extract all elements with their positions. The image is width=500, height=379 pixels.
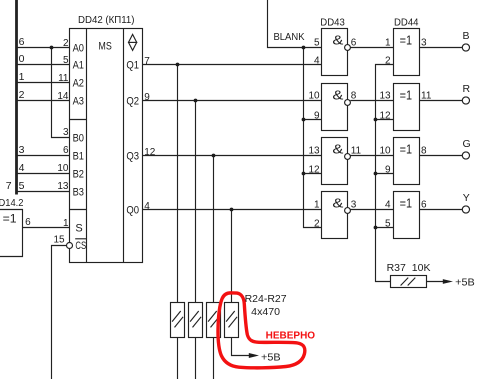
svg-text:B3: B3 <box>73 187 84 199</box>
resistor R25 <box>189 303 203 338</box>
wire DD43.2 out to DD44 pin13 <box>350 100 393 102</box>
wire D14.2 pin6 to S <box>23 227 70 229</box>
svg-text:A2: A2 <box>73 78 84 90</box>
wire DD43.1 out to DD44 pin1 <box>350 47 393 49</box>
junction node Q1 drop <box>176 63 180 67</box>
arrow +5V at R37 <box>443 279 453 284</box>
svg-text:6: 6 <box>63 145 69 156</box>
svg-text:=1: =1 <box>400 142 412 157</box>
terminal R <box>462 97 469 104</box>
junction node Q2 drop <box>194 99 198 103</box>
wire DD43.4 out to DD44 pin4 <box>350 209 393 211</box>
svg-text:4: 4 <box>385 200 391 211</box>
wire below R27 to +5V arrow <box>232 338 250 356</box>
gate DD43.2 (NAND) <box>322 84 348 131</box>
svg-text:9: 9 <box>385 164 391 175</box>
svg-text:7: 7 <box>144 56 150 67</box>
svg-text:Q2: Q2 <box>126 95 139 107</box>
wire below R26 <box>213 338 215 379</box>
output qualifier diamond <box>129 34 137 50</box>
wire DD44.2 out to terminal R <box>420 100 463 102</box>
svg-text:S: S <box>75 223 82 235</box>
svg-text:B0: B0 <box>73 133 84 145</box>
svg-text:3: 3 <box>63 127 69 138</box>
red annotation text НЕВЕРНО <box>266 331 316 342</box>
wire BLANK from top <box>268 0 322 48</box>
svg-text:5: 5 <box>385 218 391 229</box>
svg-text:A3: A3 <box>73 96 84 108</box>
svg-text:=1: =1 <box>3 212 17 226</box>
svg-text:11: 11 <box>351 145 362 156</box>
junction node BLANK pin12 <box>302 172 306 176</box>
svg-text:B1: B1 <box>73 151 84 163</box>
wire R37 to +5V <box>427 281 444 283</box>
svg-text:5: 5 <box>314 38 320 49</box>
wire BLANK to DD43 pin12 <box>304 173 322 175</box>
svg-text:&: & <box>332 89 344 103</box>
wire below R25 <box>195 338 197 379</box>
wire resistor drop 4 <box>231 210 233 303</box>
svg-text:13: 13 <box>57 181 69 192</box>
wire B3 <box>17 191 70 193</box>
svg-text:DD42 (КП11): DD42 (КП11) <box>78 14 135 26</box>
svg-text:10: 10 <box>57 163 69 174</box>
svg-text:2: 2 <box>314 218 320 229</box>
svg-text:2: 2 <box>19 89 25 101</box>
svg-text:=1: =1 <box>400 196 412 211</box>
junction node A0 tap <box>50 46 54 50</box>
wire DD44 second-input vertical to R37 <box>376 65 394 282</box>
resistor R24 <box>171 303 185 338</box>
svg-text:Y: Y <box>463 192 470 204</box>
chip DD42 body <box>70 29 143 263</box>
chip DD42 inner line 1 <box>86 29 88 263</box>
svg-text:R: R <box>463 83 471 95</box>
terminal B <box>462 44 469 51</box>
svg-text:0: 0 <box>19 53 25 65</box>
svg-text:Q3: Q3 <box>126 150 139 162</box>
svg-text:3: 3 <box>19 144 25 156</box>
svg-text:CS: CS <box>75 240 86 252</box>
svg-text:3: 3 <box>421 37 427 48</box>
svg-text:10K: 10K <box>412 262 431 274</box>
chip D14.2 body (cut by image edge) <box>0 210 23 257</box>
svg-text:D14.2: D14.2 <box>0 197 24 209</box>
svg-text:3: 3 <box>351 199 357 210</box>
wire Q1 to DD43 pin4 <box>143 64 322 66</box>
gate DD44.4 (XOR) <box>394 192 420 239</box>
svg-text:8: 8 <box>351 90 357 101</box>
svg-text:1: 1 <box>385 38 391 49</box>
gate DD43.1 (NAND) <box>322 29 348 76</box>
resistor R37 <box>391 276 427 288</box>
wire DD44.3 out to terminal G <box>420 155 463 157</box>
svg-text:6: 6 <box>19 36 25 48</box>
svg-text:4x470: 4x470 <box>251 306 280 318</box>
gate DD43.4 (NAND) <box>322 192 348 239</box>
svg-text:Q1: Q1 <box>126 59 139 71</box>
svg-text:1: 1 <box>63 218 69 229</box>
svg-text:R24-R27: R24-R27 <box>245 293 287 305</box>
svg-text:НЕВЕРНО: НЕВЕРНО <box>266 331 316 342</box>
wire DD43.3 out to DD44 pin10 <box>350 155 393 157</box>
junction node vert2 pin9 <box>374 172 378 176</box>
wire CS pin15 drop <box>52 246 67 379</box>
gate DD44.3 (XOR) <box>394 138 420 185</box>
svg-text:MS: MS <box>98 41 111 53</box>
svg-text:8: 8 <box>421 145 427 156</box>
svg-text:A0: A0 <box>73 43 84 55</box>
svg-text:6: 6 <box>25 217 31 228</box>
svg-text:R37: R37 <box>387 262 406 274</box>
svg-text:B: B <box>463 30 470 42</box>
svg-text:Q0: Q0 <box>126 204 139 216</box>
svg-text:12: 12 <box>308 164 320 175</box>
gate DD44.1 (XOR) <box>394 29 420 76</box>
wire B2 <box>17 173 70 175</box>
wire to DD44 pin5 <box>376 227 394 229</box>
wire to DD44 pin12 <box>376 119 394 121</box>
svg-text:15: 15 <box>53 235 65 246</box>
svg-text:9: 9 <box>144 92 150 103</box>
bus line (thick data bus) <box>15 0 18 195</box>
svg-text:1: 1 <box>19 71 25 83</box>
wire A3 <box>17 100 70 102</box>
svg-text:7: 7 <box>6 180 12 192</box>
svg-text:2: 2 <box>63 38 69 49</box>
resistor R27 <box>225 303 239 338</box>
svg-text:+5В: +5В <box>261 351 281 363</box>
svg-text:10: 10 <box>308 91 320 102</box>
chip DD42 separator B/S <box>70 209 87 211</box>
svg-text:14: 14 <box>57 91 69 102</box>
wire A0 <box>17 47 70 49</box>
svg-text:11: 11 <box>58 73 69 84</box>
svg-text:&: & <box>332 143 344 157</box>
chip DD42 inner line 2 <box>123 29 125 263</box>
terminal Y <box>462 206 469 213</box>
wire A1 <box>17 64 70 66</box>
wire below R24 <box>177 338 179 379</box>
svg-text:13: 13 <box>379 91 391 102</box>
junction node vert2 pin12 <box>374 118 378 122</box>
resistor R26 <box>207 303 221 338</box>
svg-text:=1: =1 <box>400 88 412 103</box>
wire Q0 to DD43 pin1 <box>143 209 322 211</box>
wire DD44.4 out to terminal Y <box>420 209 463 211</box>
wire resistor drop 3 <box>213 156 215 303</box>
svg-text:13: 13 <box>308 146 320 157</box>
svg-text:4: 4 <box>144 201 150 212</box>
svg-text:12: 12 <box>144 147 156 158</box>
svg-text:2: 2 <box>385 55 391 66</box>
wire BLANK to DD43 pin9 <box>304 119 322 121</box>
gate DD44.2 (XOR) <box>394 84 420 131</box>
junction node Q0 drop <box>230 208 234 212</box>
svg-text:DD43: DD43 <box>320 17 345 29</box>
svg-text:&: & <box>332 34 344 48</box>
svg-text:11: 11 <box>421 90 432 101</box>
svg-text:B2: B2 <box>73 169 84 181</box>
svg-text:&: & <box>332 197 344 211</box>
svg-text:9: 9 <box>314 110 320 121</box>
gate DD43.3 (NAND) <box>322 138 348 185</box>
arrow +5V bottom <box>249 353 259 358</box>
overline of CS label <box>75 238 86 240</box>
wire Q2 to DD43 pin10 <box>143 100 322 102</box>
svg-text:A1: A1 <box>73 60 84 72</box>
junction node Q3 drop <box>212 154 216 158</box>
svg-text:4: 4 <box>19 162 25 174</box>
wire resistor drop 1 <box>177 65 179 303</box>
wire B1 <box>17 155 70 157</box>
svg-text:G: G <box>463 138 471 150</box>
red freehand loop (marks wrong connection) <box>218 293 305 368</box>
svg-text:=1: =1 <box>400 33 412 48</box>
inverter circle CS <box>67 243 73 249</box>
svg-text:6: 6 <box>421 199 427 210</box>
chip DD42 separator A/B <box>70 119 87 121</box>
wire to DD44 pin9 <box>376 173 394 175</box>
wire Q3 to DD43 pin13 <box>143 155 322 157</box>
junction node BLANK top <box>302 46 306 50</box>
svg-text:5: 5 <box>63 55 69 66</box>
svg-text:10: 10 <box>379 146 391 157</box>
svg-text:DD44: DD44 <box>394 17 419 29</box>
svg-text:12: 12 <box>379 110 391 121</box>
wire A2 <box>17 82 70 84</box>
wire BLANK distribution vertical <box>304 48 322 228</box>
svg-text:BLANK: BLANK <box>274 31 305 43</box>
junction node BLANK pin9 <box>302 118 306 122</box>
terminal G <box>462 152 469 159</box>
svg-text:+5В: +5В <box>455 276 475 288</box>
svg-text:4: 4 <box>314 55 320 66</box>
svg-text:6: 6 <box>351 37 357 48</box>
junction node vert2 pin5 <box>374 226 378 230</box>
wire resistor drop 2 <box>195 101 197 303</box>
svg-text:1: 1 <box>314 200 320 211</box>
svg-text:5: 5 <box>19 180 25 192</box>
wire A0-to-B0 link <box>52 48 70 138</box>
wire DD44.1 out to terminal B <box>420 47 463 49</box>
